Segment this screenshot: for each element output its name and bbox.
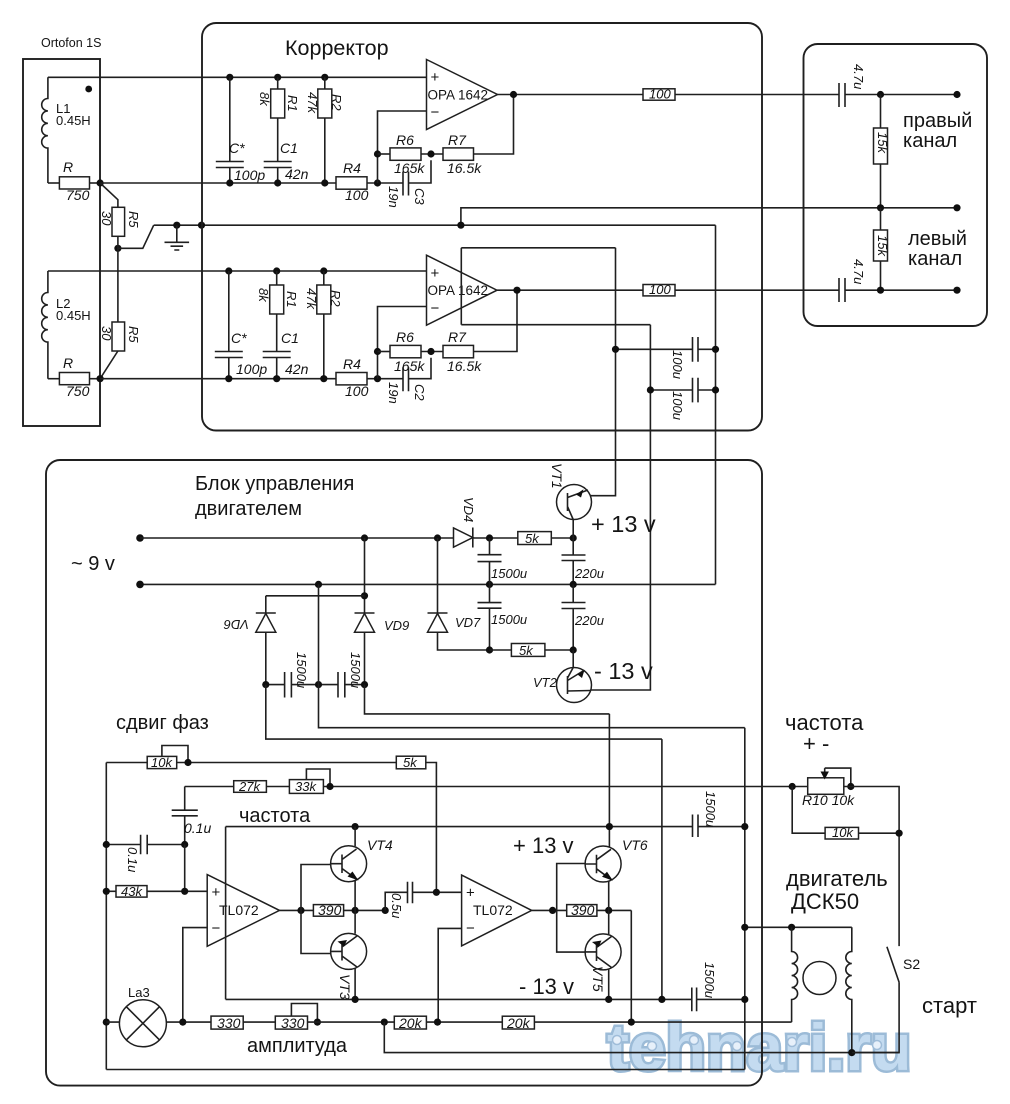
svg-text:~ 9 v: ~ 9 v: [71, 553, 115, 575]
resistor R6 165k (ch2): [378, 351, 391, 353]
svg-text:OPA 1642: OPA 1642: [428, 88, 489, 103]
wire AC bottom / mid rail: [140, 583, 716, 585]
svg-text:+ -: + -: [803, 731, 829, 756]
resistor 5k (osc): [396, 756, 426, 769]
wire ground drop x=715: [715, 225, 717, 584]
svg-text:−: −: [431, 104, 440, 121]
svg-text:19n: 19n: [386, 382, 401, 404]
svg-text:5k: 5k: [519, 643, 534, 658]
motor rotor: [803, 962, 836, 995]
resistor R4 100 (ch1): [336, 177, 367, 189]
node ch2 top C*: [225, 267, 232, 274]
svg-text:16.5k: 16.5k: [447, 160, 482, 176]
node VD4 cathode junction: [486, 534, 493, 541]
svg-text:100: 100: [649, 282, 671, 297]
svg-text:TL072: TL072: [473, 902, 513, 918]
svg-text:двигатель: двигатель: [786, 866, 888, 891]
wire TL072-1 output: [280, 909, 314, 911]
svg-text:30: 30: [99, 211, 114, 226]
svg-text:42n: 42n: [285, 166, 309, 182]
transistor VT6: [585, 846, 621, 882]
motor winding right: [846, 927, 852, 1052]
node ground stub: [173, 222, 180, 229]
svg-text:8k: 8k: [257, 92, 272, 107]
potentiometer 33k: [289, 780, 323, 794]
resistor R 750 (ch2): [48, 378, 60, 380]
svg-text:+ 13 v: + 13 v: [591, 511, 656, 537]
svg-text:750: 750: [66, 383, 90, 399]
ground symbol: [165, 225, 190, 250]
capacitor C1 42n (ch1): [264, 118, 292, 183]
node bus box-edge dot: [198, 222, 205, 229]
wire TL072-2 output: [532, 909, 567, 911]
node 5k lower left: [486, 646, 493, 653]
svg-text:C3: C3: [412, 188, 427, 205]
node VT1 base: [570, 534, 577, 541]
svg-text:VT4: VT4: [367, 837, 393, 853]
motor winding left: [792, 927, 798, 1022]
node ch2 rail junction: [97, 375, 104, 382]
capacitor C3 19n (ch1): [403, 160, 431, 195]
svg-text:220u: 220u: [574, 613, 604, 628]
resistor R1 8k (ch1): [277, 77, 279, 89]
op-amp U3 TL072: [207, 875, 279, 947]
wire 27k/33k line: [185, 786, 808, 788]
wire TL072-1 supply vertical: [225, 827, 227, 1000]
wire zigzag to ground bus: [118, 225, 154, 248]
svg-text:VD7: VD7: [455, 615, 481, 630]
wire ch2 minus input: [378, 307, 427, 379]
diode VD7: [437, 538, 439, 613]
node AC top terminal: [136, 534, 144, 542]
svg-text:канал: канал: [908, 248, 962, 270]
svg-text:R7: R7: [448, 132, 467, 148]
node left ch terminal: [953, 287, 960, 294]
wire buffer2 feedback drop: [630, 910, 632, 1022]
resistor 5k (lower): [511, 644, 545, 657]
node jog on ground bus: [457, 222, 464, 229]
svg-text:R4: R4: [343, 160, 361, 176]
node ch2 top R2: [320, 267, 327, 274]
wire opamp supply rect top: [461, 247, 615, 249]
svg-text:+: +: [212, 884, 221, 901]
inductor L1: [42, 77, 48, 183]
wire ground bus: [154, 224, 716, 226]
svg-text:R1: R1: [284, 291, 299, 308]
wire VD6 to VD9 top: [266, 595, 365, 597]
potentiometer 10k: [147, 756, 177, 768]
capacitor 100u (upper): [616, 337, 716, 362]
resistor 5k (upper): [518, 532, 552, 545]
svg-text:100p: 100p: [236, 361, 267, 377]
wire opamp supply rect left: [460, 248, 462, 325]
wire AC top: [140, 537, 454, 539]
svg-text:S2: S2: [903, 956, 920, 972]
watermark tehnari.ru: [607, 1010, 911, 1084]
svg-text:100u: 100u: [670, 391, 685, 420]
svg-text:- 13 v: - 13 v: [519, 974, 574, 999]
svg-text:R2: R2: [329, 94, 344, 111]
wire motor top: [745, 926, 852, 928]
resistor 100 (ch1 output): [643, 89, 675, 100]
diode VD4: [454, 528, 473, 547]
svg-text:42n: 42n: [285, 361, 309, 377]
node ch2 top R1: [273, 267, 280, 274]
resistor R6 165k (ch1): [378, 153, 391, 155]
op-amp U4 TL072: [462, 875, 532, 946]
node ch1 top C*: [226, 74, 233, 81]
switch S2: [852, 947, 899, 1053]
resistor 20k (second): [502, 1016, 534, 1029]
wire left column x=106: [105, 763, 107, 1070]
svg-text:10k: 10k: [151, 755, 173, 770]
svg-text:16.5k: 16.5k: [447, 358, 482, 374]
svg-text:20k: 20k: [398, 1015, 423, 1031]
svg-text:100p: 100p: [234, 167, 265, 183]
svg-text:1500u: 1500u: [703, 791, 718, 827]
svg-text:5k: 5k: [525, 531, 540, 546]
svg-text:4.7u: 4.7u: [851, 259, 866, 284]
node ch2 minus rail: [374, 375, 381, 382]
svg-text:1500u: 1500u: [702, 962, 717, 998]
node mid junction: [877, 204, 884, 211]
svg-text:100: 100: [649, 87, 671, 102]
wire ch1 output to right box: [675, 94, 839, 96]
capacitor 4.7u (left channel): [839, 278, 957, 302]
transistor VT3: [331, 933, 367, 969]
wire R5 link between channels: [117, 236, 119, 322]
svg-text:1500u: 1500u: [348, 652, 363, 688]
wire VT3/VT4 base tie: [301, 865, 331, 954]
svg-text:100u: 100u: [670, 350, 685, 379]
wire bottom return: [106, 1069, 745, 1071]
svg-text:+: +: [431, 69, 440, 86]
node VT2 base: [570, 646, 577, 653]
node AC bottom terminal: [136, 581, 144, 589]
svg-text:VT5: VT5: [590, 966, 606, 992]
capacitor 1500u (motor upper): [693, 815, 745, 838]
wire x318 column: [319, 584, 745, 727]
node amplitude corner: [381, 1019, 388, 1026]
capacitor 1500u (neg): [478, 584, 502, 650]
svg-text:частота: частота: [239, 805, 311, 827]
wire +13 rail: [226, 826, 693, 828]
Ortofon 1S enclosure box: [23, 59, 100, 426]
resistor 10k (fixed): [825, 827, 858, 839]
output enclosure: [804, 44, 988, 326]
resistor R5 30 (ch1, vertical): [112, 207, 125, 236]
svg-text:C*: C*: [231, 330, 247, 346]
resistor 100 (ch2 output): [643, 285, 675, 296]
resistor 390 (osc2): [567, 905, 597, 917]
svg-text:15k: 15k: [875, 235, 890, 257]
svg-text:−: −: [466, 920, 475, 937]
Корректор enclosure: [202, 23, 762, 431]
wire ch2 bottom rail: [100, 378, 336, 380]
svg-text:R1: R1: [285, 95, 300, 112]
node VD9 top wire: [361, 592, 368, 599]
node polarity dot: [85, 86, 92, 93]
wire diagonal to R5: [100, 183, 118, 207]
inductor L2: [42, 271, 48, 379]
wire mid bus jog: [461, 208, 957, 225]
svg-text:165k: 165k: [394, 160, 425, 176]
resistor 330: [211, 1016, 243, 1029]
svg-text:27k: 27k: [238, 779, 261, 794]
node junction ch1 rail / R5: [97, 179, 104, 186]
svg-text:0.5u: 0.5u: [389, 893, 404, 918]
wire VT5/VT6 base tie: [557, 864, 585, 953]
svg-text:8k: 8k: [256, 288, 271, 303]
svg-text:0.45H: 0.45H: [56, 308, 91, 323]
wire +supply vertical x=615: [588, 248, 616, 496]
svg-text:R2: R2: [328, 290, 343, 307]
svg-text:VD4: VD4: [461, 497, 476, 522]
svg-text:R7: R7: [448, 329, 467, 345]
svg-text:OPA 1642: OPA 1642: [428, 283, 489, 298]
svg-text:Ortofon 1S: Ortofon 1S: [41, 36, 101, 50]
wire -supply vertical x=650: [589, 325, 650, 690]
svg-text:C*: C*: [229, 140, 245, 156]
transistor VT1: [557, 485, 592, 520]
svg-text:4.7u: 4.7u: [851, 64, 866, 89]
capacitor 1500u (pos): [478, 538, 502, 584]
Блок управления enclosure: [46, 460, 762, 1086]
capacitor 0.5u: [385, 882, 461, 911]
svg-text:левый: левый: [908, 228, 967, 250]
resistor R7 16.5k (ch1): [443, 148, 474, 160]
svg-text:750: 750: [66, 187, 90, 203]
svg-text:C2: C2: [412, 384, 427, 401]
svg-text:5k: 5k: [403, 755, 418, 770]
capacitor 1500u (doubler right): [338, 672, 345, 698]
svg-text:100: 100: [345, 187, 369, 203]
svg-text:канал: канал: [903, 130, 957, 152]
node mid rail x573: [570, 581, 577, 588]
svg-text:220u: 220u: [574, 566, 604, 581]
node R5 bottom junction: [114, 245, 121, 252]
svg-text:0.45H: 0.45H: [56, 113, 91, 128]
diode VD9: [364, 538, 366, 613]
svg-text:+ 13 v: + 13 v: [513, 833, 574, 858]
svg-text:165k: 165k: [394, 358, 425, 374]
resistor 390 (osc1): [313, 905, 343, 917]
svg-text:+: +: [466, 885, 475, 902]
capacitor C1 42n (ch2): [263, 314, 291, 379]
resistor 15k (upper): [880, 95, 882, 129]
wire ch2 feedback: [474, 290, 518, 351]
svg-text:сдвиг фаз: сдвиг фаз: [116, 712, 209, 734]
transistor VT5: [585, 934, 621, 970]
svg-text:R: R: [63, 355, 73, 371]
svg-text:47k: 47k: [304, 288, 319, 310]
wire opamp supply rect bottom: [461, 324, 650, 326]
node ch1 top R1: [274, 74, 281, 81]
svg-text:правый: правый: [903, 110, 972, 132]
capacitor 4.7u (right channel): [839, 83, 957, 107]
capacitor 100u (lower): [650, 378, 715, 403]
svg-text:R6: R6: [396, 329, 414, 345]
resistor 27k: [234, 781, 267, 793]
svg-text:VD9: VD9: [384, 618, 409, 633]
capacitor 0.1u (series): [172, 787, 198, 845]
wire ch1 minus input: [378, 111, 427, 183]
node mid rail x489: [486, 581, 493, 588]
svg-text:VD6: VD6: [223, 617, 249, 632]
wire rectifier bottom rail: [266, 684, 365, 686]
svg-text:R4: R4: [343, 356, 361, 372]
potentiometer 330: [275, 1016, 307, 1029]
resistor R1 8k (ch2): [276, 271, 278, 285]
node R6/R7 junction ch1: [427, 150, 434, 157]
capacitor C2 19n (ch2): [403, 358, 431, 392]
wire: channel1 + input feed: [48, 76, 427, 78]
resistor R5 30 (ch2, vertical): [112, 322, 125, 351]
wire 10k line: [106, 762, 396, 764]
wire -raw feed x265 to x662: [266, 685, 662, 1000]
resistor 20k (first): [394, 1016, 426, 1029]
svg-text:10k: 10k: [832, 825, 854, 840]
node ch1 minus rail: [374, 179, 381, 186]
svg-text:−: −: [212, 920, 221, 937]
wire ch2 output to right box: [675, 289, 839, 291]
node R6/R7 junction ch2: [427, 348, 434, 355]
capacitor 220u (lower): [562, 584, 586, 650]
svg-text:C1: C1: [280, 140, 298, 156]
svg-text:100: 100: [345, 383, 369, 399]
svg-text:R5: R5: [126, 211, 141, 228]
potentiometer R10 10k: [808, 778, 844, 795]
resistor R7 16.5k (ch2): [443, 345, 474, 357]
svg-text:Блок управления: Блок управления: [195, 473, 354, 495]
wire +raw feed x364 to x609: [365, 685, 610, 847]
svg-text:R: R: [63, 159, 73, 175]
wire start loop bottom: [384, 1022, 899, 1053]
svg-text:VT3: VT3: [337, 974, 353, 1000]
svg-text:VT1: VT1: [549, 463, 565, 489]
wire TL072-2 minus input: [438, 928, 461, 1022]
svg-text:1500u: 1500u: [491, 612, 527, 627]
svg-text:R5: R5: [126, 326, 141, 343]
svg-text:0.1u: 0.1u: [184, 820, 211, 836]
svg-text:- 13 v: - 13 v: [594, 658, 653, 684]
svg-text:1500u: 1500u: [294, 652, 309, 688]
capacitor 1500u (doubler left): [285, 672, 292, 698]
node VD7 column tap: [434, 534, 441, 541]
svg-text:43k: 43k: [121, 884, 143, 899]
svg-text:390: 390: [318, 902, 342, 918]
wire 5k drop to TL072-2: [426, 763, 437, 893]
node right ch junction: [877, 91, 884, 98]
node mid rail x318: [315, 581, 322, 588]
svg-text:VT6: VT6: [622, 837, 648, 853]
wire ch1 bottom rail: [100, 182, 336, 184]
diode VD6: [265, 596, 267, 613]
resistor R4 100 (ch2): [336, 373, 367, 385]
svg-text:15k: 15k: [875, 132, 890, 154]
svg-text:Корректор: Корректор: [285, 36, 389, 60]
svg-text:−: −: [431, 300, 440, 317]
svg-text:30: 30: [99, 326, 114, 341]
wire +13 drop x=744: [744, 728, 746, 1070]
wire R5 ch2 bottom diagonal: [100, 351, 118, 379]
svg-text:амплитуда: амплитуда: [247, 1035, 348, 1057]
svg-text:двигателем: двигателем: [195, 498, 302, 520]
svg-text:20k: 20k: [506, 1015, 531, 1031]
wire ch1 feedback: [474, 95, 514, 155]
svg-text:старт: старт: [922, 993, 977, 1018]
capacitor 0.1u (shunt): [106, 835, 184, 855]
svg-text:C1: C1: [281, 330, 299, 346]
svg-text:1500u: 1500u: [491, 566, 527, 581]
svg-text:47k: 47k: [305, 92, 320, 114]
svg-text:ДСК50: ДСК50: [791, 889, 859, 914]
capacitor C* 100p (ch2): [215, 271, 243, 379]
svg-text:La3: La3: [128, 985, 150, 1000]
op-amp U1 OPA 1642 (ch1): [427, 60, 498, 130]
node ch1 top R2: [321, 74, 328, 81]
wire -13 rail: [226, 998, 692, 1000]
transistor VT4: [331, 846, 367, 882]
svg-text:VT2: VT2: [533, 675, 558, 690]
capacitor C* 100p (ch1): [216, 77, 244, 183]
wire ch2 output: [497, 289, 643, 291]
resistor R2 47k (ch2): [323, 271, 325, 285]
svg-text:33k: 33k: [295, 779, 317, 794]
wire R10 right to switch column: [844, 787, 899, 947]
wire: channel2 + input feed: [48, 270, 427, 272]
wire TL072-1 minus input: [183, 928, 207, 1023]
resistor 43k: [106, 890, 116, 892]
node left ch junction: [877, 287, 884, 294]
svg-text:330: 330: [217, 1015, 241, 1031]
svg-text:R6: R6: [396, 132, 414, 148]
resistor R2 47k (ch1): [324, 77, 326, 89]
resistor 15k (lower): [880, 208, 882, 230]
svg-text:R10 10k: R10 10k: [802, 792, 855, 808]
wire ch1 output: [498, 94, 644, 96]
svg-text:+: +: [431, 265, 440, 282]
op-amp U2 OPA 1642 (ch2): [427, 255, 498, 325]
svg-text:390: 390: [571, 902, 595, 918]
svg-text:0.1u: 0.1u: [125, 847, 140, 872]
capacitor 220u (upper): [562, 538, 586, 584]
capacitor 1500u (motor lower): [692, 988, 745, 1012]
transistor VT2: [572, 650, 574, 668]
node VD9 column tap: [361, 534, 368, 541]
wire 10k lower branch: [792, 787, 825, 834]
resistor R 750 (ch1): [48, 182, 60, 184]
svg-text:19n: 19n: [386, 186, 401, 208]
wire x=184 column: [184, 845, 186, 892]
svg-text:330: 330: [281, 1015, 305, 1031]
node mid terminal: [953, 204, 960, 211]
node right ch terminal: [953, 91, 960, 98]
